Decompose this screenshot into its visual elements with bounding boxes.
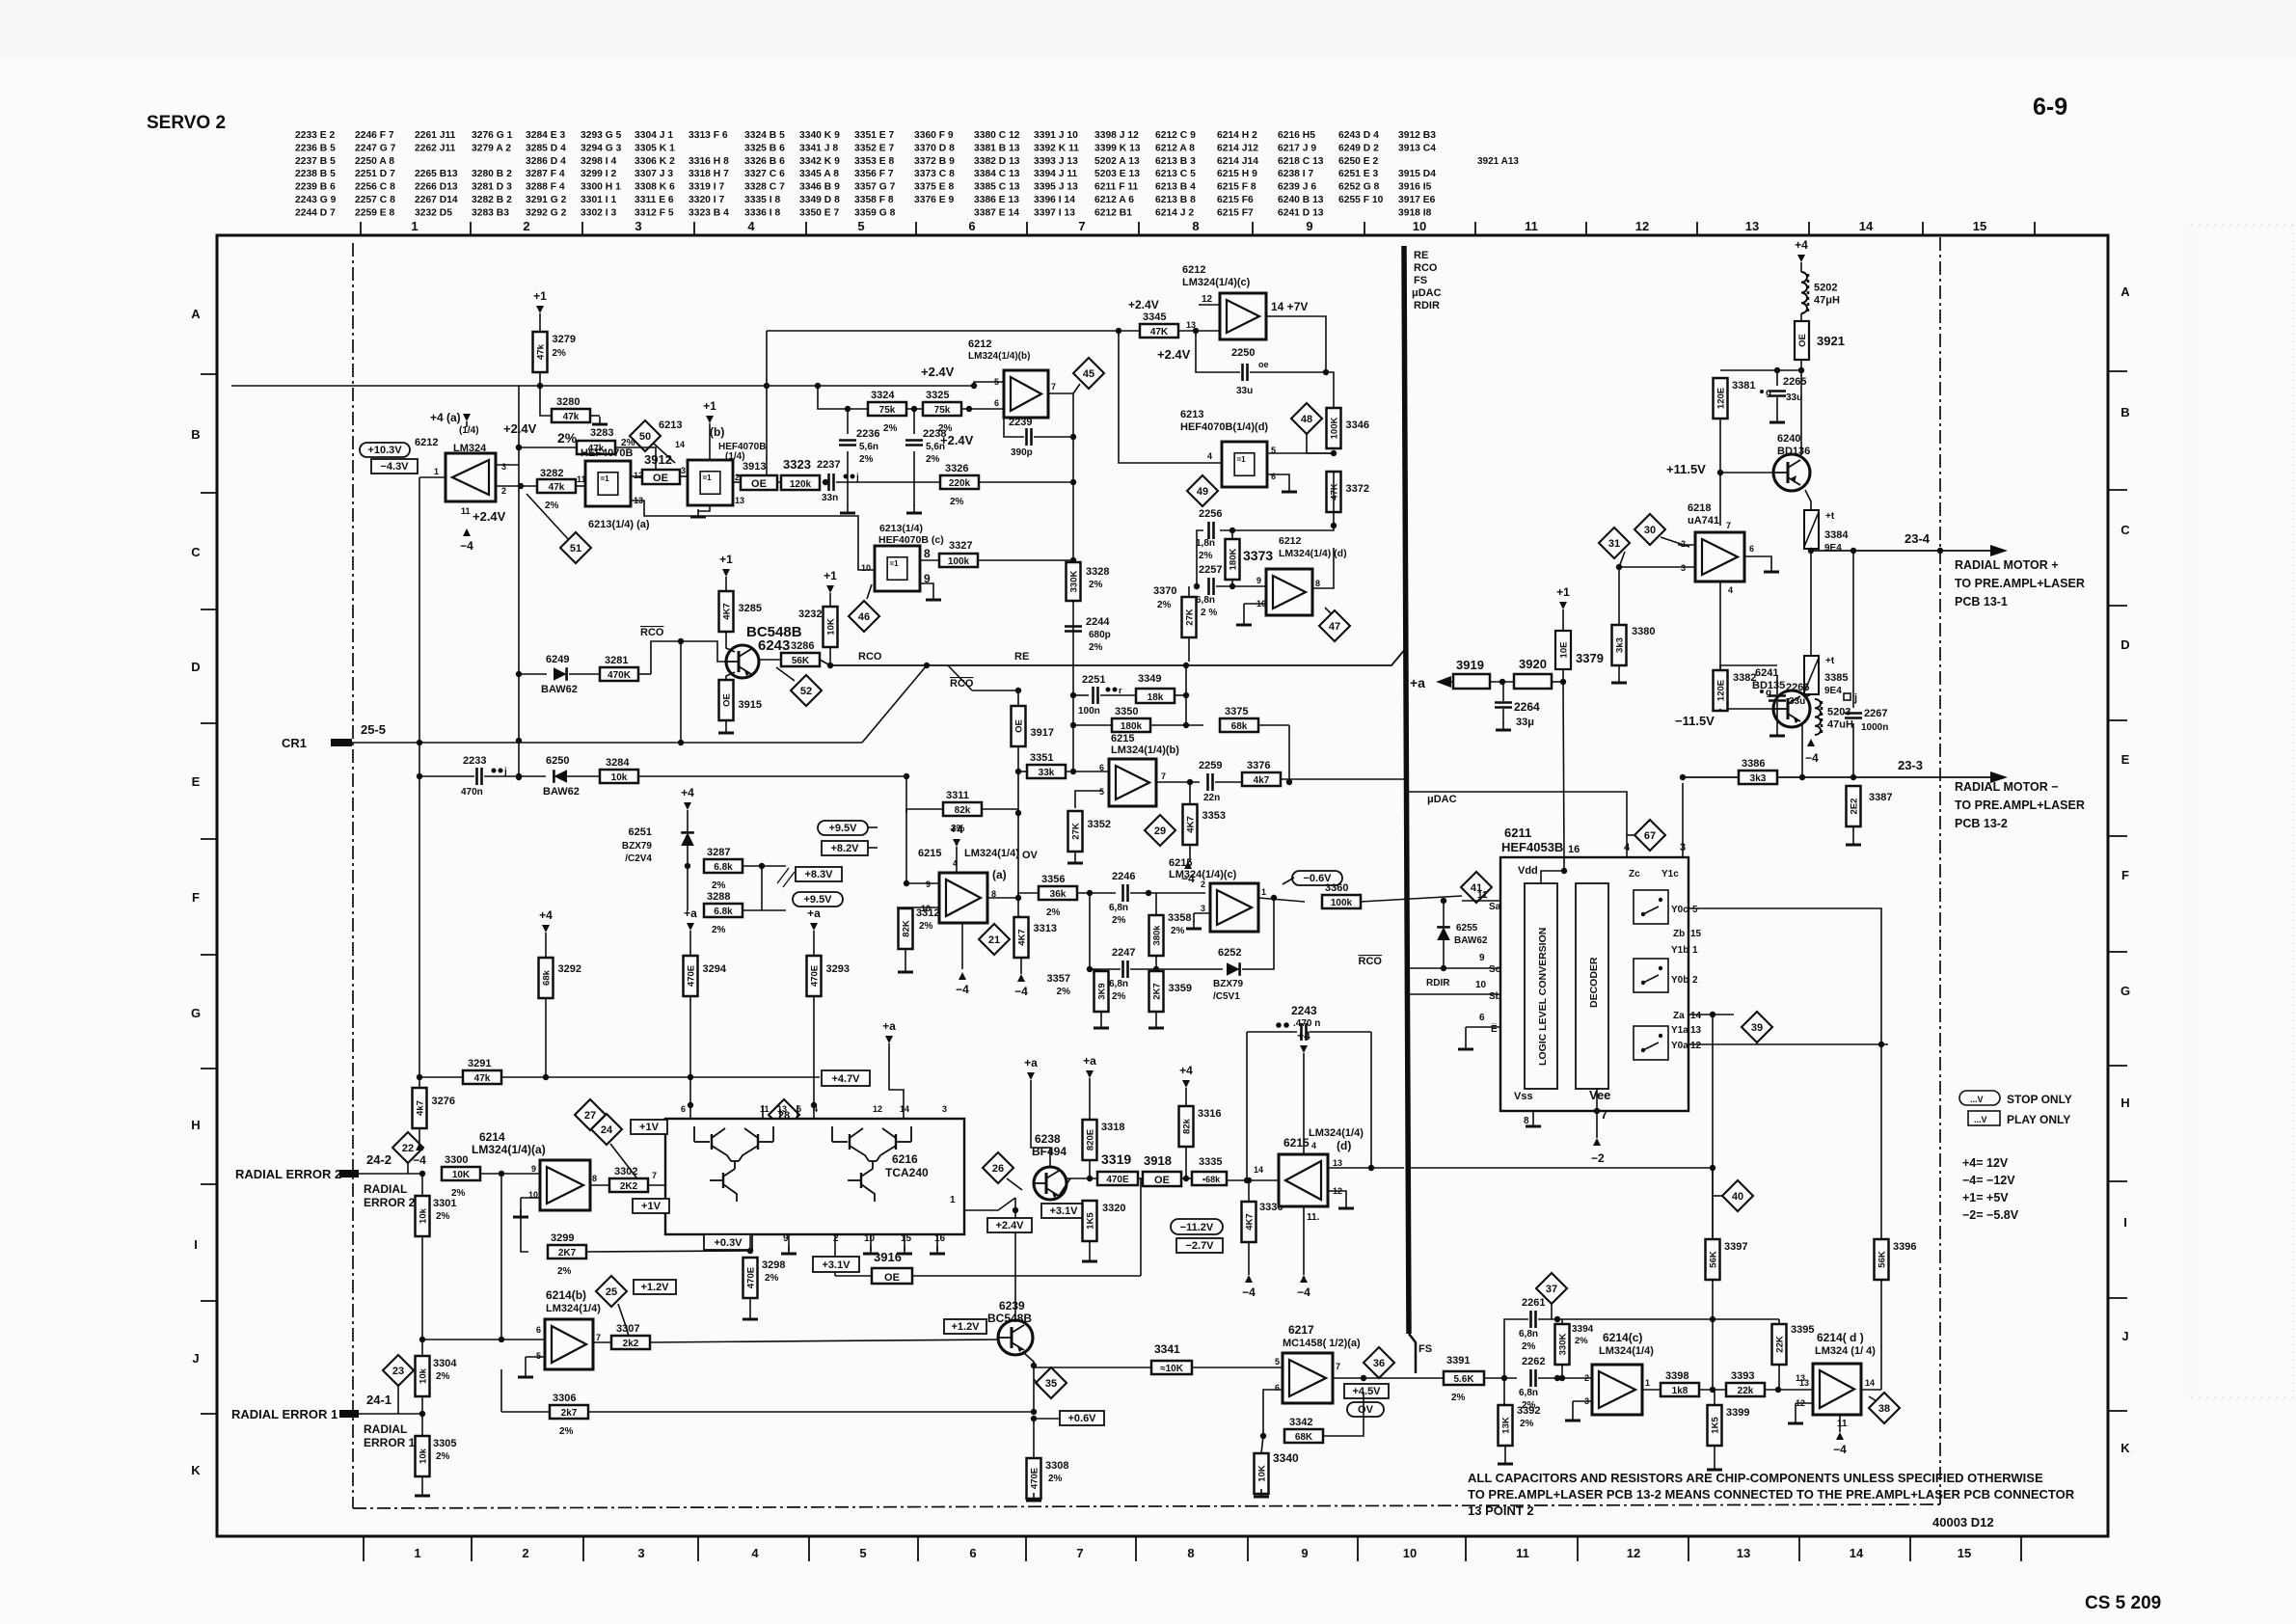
op-amp 6215(b) LM324: [1109, 759, 1156, 806]
svg-text:OE: OE: [884, 1272, 900, 1284]
svg-text:3300: 3300: [445, 1154, 468, 1166]
svg-text:10k: 10k: [419, 1367, 429, 1384]
ground: [1618, 675, 1620, 683]
wire: [1642, 1389, 1662, 1391]
wire: [906, 809, 943, 813]
test point 28: [769, 1099, 799, 1130]
svg-text:−4: −4: [1242, 1286, 1256, 1299]
svg-text:3292 G 2: 3292 G 2: [526, 207, 567, 218]
junction: [1710, 1316, 1715, 1322]
wire Za vertical: [1712, 1015, 1714, 1319]
test point 30: [1634, 514, 1665, 545]
wire pin: [788, 1234, 790, 1251]
resistor 3372: [1327, 472, 1341, 512]
wire: [1484, 1377, 1517, 1379]
svg-text:33u: 33u: [1786, 392, 1802, 403]
test point 21: [979, 924, 1010, 955]
svg-text:14: 14: [675, 440, 685, 449]
svg-text:+4 (a): +4 (a): [430, 411, 461, 424]
svg-text:3311: 3311: [946, 790, 969, 801]
svg-text:+1.2V: +1.2V: [951, 1321, 980, 1333]
svg-text:3301 I 1: 3301 I 1: [581, 195, 616, 205]
junction: [1015, 688, 1021, 693]
resistor 3323: [781, 475, 820, 490]
svg-text:3313: 3313: [1034, 923, 1057, 934]
svg-text:7: 7: [1076, 1546, 1083, 1560]
svg-text:14: 14: [1850, 1546, 1864, 1560]
wire: [709, 429, 711, 460]
resistor 3349: [1136, 689, 1175, 703]
resistor 3301: [416, 1196, 430, 1236]
wire Sa: [1361, 896, 1462, 902]
svg-text:RCO: RCO: [1359, 956, 1383, 967]
wire: [1852, 723, 1854, 777]
svg-text:3286: 3286: [791, 640, 814, 652]
svg-text:37: 37: [1546, 1284, 1557, 1295]
svg-text:4: 4: [1207, 451, 1212, 461]
wire: [545, 998, 547, 1077]
svg-text:−4: −4: [460, 539, 473, 553]
svg-text:7: 7: [652, 1171, 657, 1180]
test point 25: [596, 1276, 627, 1307]
svg-text:13: 13: [1690, 1025, 1702, 1036]
ground: [1465, 1042, 1467, 1049]
svg-text:−4: −4: [1014, 985, 1028, 998]
junction: [1331, 450, 1337, 456]
junction: [1070, 692, 1076, 698]
svg-text:3345 A 8: 3345 A 8: [799, 169, 839, 179]
svg-text:G: G: [2120, 984, 2130, 998]
svg-text:F: F: [192, 890, 200, 905]
junction: [911, 406, 917, 412]
wire: [1720, 472, 1773, 474]
wire: [419, 775, 474, 777]
test point 46: [849, 601, 879, 632]
wire Y0a: [1688, 1043, 1888, 1045]
svg-text:470K: 470K: [608, 670, 632, 681]
svg-text:3293: 3293: [826, 963, 850, 975]
svg-text:2k7: 2k7: [561, 1408, 578, 1419]
wire: [526, 1356, 545, 1358]
wire: [1795, 1403, 1796, 1416]
svg-text:16: 16: [934, 1233, 946, 1244]
svg-text:−2= −5.8V: −2= −5.8V: [1962, 1208, 2019, 1222]
wire: [1073, 694, 1089, 696]
wire pin1: [964, 1198, 1015, 1210]
bus RE/RCO/FS/uDAC/RDIR: [1404, 246, 1409, 1334]
svg-text:3288: 3288: [707, 891, 730, 903]
svg-text:3385 C 13: 3385 C 13: [974, 182, 1020, 193]
wire: [1090, 893, 1121, 969]
wire: [638, 775, 906, 777]
svg-text:3386: 3386: [1742, 758, 1765, 770]
svg-text:10K: 10K: [1257, 1465, 1268, 1482]
wire: [1261, 1436, 1263, 1453]
svg-text:14: 14: [1254, 1165, 1263, 1175]
svg-text:6212: 6212: [1279, 535, 1302, 547]
svg-text:2%: 2%: [1199, 551, 1213, 561]
junction: [1087, 966, 1093, 972]
svg-text:3915: 3915: [739, 699, 762, 711]
svg-text:3k3: 3k3: [1750, 773, 1767, 784]
wire 67 stem: [1627, 834, 1634, 836]
svg-text:3282 B 2: 3282 B 2: [472, 195, 512, 205]
resistor 3351: [1027, 765, 1066, 778]
svg-text:2261: 2261: [1522, 1297, 1545, 1309]
svg-text:RDIR: RDIR: [1426, 978, 1450, 988]
junction: [1070, 557, 1076, 563]
svg-text:38: 38: [1878, 1403, 1890, 1415]
callout +3.1V: [813, 1257, 859, 1272]
wire: [1033, 1419, 1035, 1458]
svg-text:4K7: 4K7: [1017, 929, 1028, 945]
capacitor 2233: [475, 768, 478, 785]
junction: [1710, 1387, 1715, 1393]
svg-text:3912 B3: 3912 B3: [1398, 130, 1436, 141]
wire: [847, 409, 849, 434]
svg-text:I: I: [2123, 1215, 2127, 1230]
svg-text:27: 27: [584, 1110, 596, 1122]
supply: [1807, 739, 1815, 746]
ground: [1770, 564, 1772, 572]
wire: [1185, 1147, 1187, 1178]
svg-text:2%: 2%: [557, 430, 578, 446]
wire 39 stem: [1756, 1042, 1758, 1044]
svg-text:BAW62: BAW62: [1454, 935, 1488, 946]
svg-text:2243: 2243: [1291, 1004, 1317, 1017]
ground: [904, 1246, 905, 1254]
wire Y0c route: [1688, 908, 1881, 1390]
wire: [1451, 681, 1453, 683]
svg-text:3299 I 2: 3299 I 2: [581, 169, 616, 179]
svg-text:LM324(1/4)(a): LM324(1/4)(a): [472, 1143, 546, 1156]
svg-text:3342: 3342: [1289, 1417, 1312, 1428]
wire: [419, 1076, 463, 1078]
capacitor 2250: [1241, 364, 1244, 381]
svg-text:9: 9: [1301, 1546, 1308, 1560]
wire: [1719, 582, 1721, 709]
test point 24: [591, 1114, 622, 1145]
wire: [1231, 580, 1233, 586]
svg-text:52: 52: [800, 686, 812, 697]
svg-text:+1.2V: +1.2V: [640, 1282, 669, 1293]
resistor 3913: [741, 475, 777, 490]
svg-text:3: 3: [681, 466, 686, 475]
wire: [1776, 397, 1778, 415]
svg-text:oe: oe: [1258, 360, 1269, 369]
wire Sc: [1409, 967, 1500, 969]
wire pin13 row: [1328, 1167, 1404, 1169]
svg-text:6: 6: [1271, 472, 1276, 481]
junction: [516, 773, 522, 779]
wire: [1326, 372, 1334, 408]
svg-text:6212: 6212: [415, 437, 438, 448]
svg-text:+9.5V: +9.5V: [803, 894, 832, 906]
svg-text:31: 31: [1608, 538, 1620, 550]
svg-text:47uH: 47uH: [1827, 719, 1853, 731]
wire: [500, 1174, 502, 1340]
wire: [1283, 878, 1294, 884]
connector 23-4: [1990, 545, 2008, 556]
svg-text:TO PRE.AMPL+LASER PCB 13-2 ME: TO PRE.AMPL+LASER PCB 13-2 MEANS CONNECT…: [1468, 1487, 2075, 1502]
TCA240 internal pair: [693, 1126, 695, 1142]
wire: [836, 481, 940, 483]
wire: [961, 408, 1004, 410]
wire 23-4: [1811, 550, 1990, 552]
svg-text:Vdd: Vdd: [1518, 865, 1538, 877]
svg-text:1: 1: [950, 1195, 956, 1205]
svg-text:2251 D 7: 2251 D 7: [355, 169, 395, 179]
svg-text:2250: 2250: [1231, 347, 1255, 359]
svg-text:▪68k: ▪68k: [1202, 1175, 1221, 1184]
svg-text:HEF4070B (c): HEF4070B (c): [878, 534, 944, 546]
ground: [1502, 722, 1504, 730]
wire: [1618, 665, 1620, 675]
wire: [1066, 771, 1109, 772]
svg-text:100k: 100k: [948, 556, 970, 567]
callout −0.6V: [1292, 871, 1342, 885]
svg-text:33k: 33k: [1039, 768, 1055, 778]
junction: [1501, 1375, 1507, 1381]
svg-text:LM324 (1/ 4): LM324 (1/ 4): [1815, 1345, 1876, 1357]
wire: [687, 816, 689, 831]
svg-text:PCB 13-1: PCB 13-1: [1955, 595, 2008, 609]
junction: [419, 1171, 425, 1177]
wire: [829, 647, 831, 665]
wire: [1243, 604, 1245, 617]
wire: [978, 559, 1073, 561]
resistor 3298: [743, 1258, 758, 1298]
svg-text:J: J: [192, 1351, 199, 1366]
wire: [835, 1275, 872, 1277]
svg-text:10E: 10E: [1559, 642, 1570, 659]
svg-text:5202: 5202: [1814, 283, 1837, 294]
junction: [516, 671, 522, 677]
svg-text:2%: 2%: [1522, 1341, 1536, 1352]
wire: [1404, 1377, 1444, 1379]
wire to bus: [1281, 778, 1404, 780]
svg-text:3387: 3387: [1869, 792, 1892, 803]
svg-text:+1: +1: [824, 569, 837, 582]
svg-text:3399 K 13: 3399 K 13: [1094, 143, 1141, 153]
wire: [525, 1357, 527, 1369]
callout −11.2V: [1171, 1219, 1223, 1234]
wire: [1712, 1319, 1714, 1390]
svg-text:+a: +a: [1410, 675, 1425, 690]
wire: [539, 319, 541, 332]
svg-text:2%: 2%: [712, 925, 726, 935]
gate 6213 HEF4070B (b): [688, 460, 733, 505]
svg-text:6214(c): 6214(c): [1603, 1331, 1642, 1344]
svg-text:TO PRE.AMPL+LASER: TO PRE.AMPL+LASER: [1955, 577, 2085, 590]
svg-text:2256 C 8: 2256 C 8: [355, 182, 395, 193]
resistor 3299: [548, 1245, 586, 1259]
junction: [499, 1171, 504, 1177]
svg-text:5: 5: [1692, 905, 1698, 915]
junction: [1070, 769, 1076, 774]
svg-text:470E: 470E: [746, 1267, 757, 1288]
wire: [1138, 1177, 1143, 1179]
svg-text:6238 I 7: 6238 I 7: [1278, 169, 1313, 179]
supply −4: [1245, 1275, 1253, 1283]
wire: [631, 475, 642, 477]
svg-text:6215 F7: 6215 F7: [1217, 207, 1254, 218]
callout +1.2V: [944, 1319, 986, 1334]
wire 46 stem: [867, 584, 872, 599]
svg-text:3335: 3335: [1199, 1156, 1222, 1168]
wire: [1572, 1401, 1574, 1413]
svg-text:2236: 2236: [856, 428, 879, 440]
wire: [834, 1272, 836, 1276]
svg-text:2264: 2264: [1514, 700, 1540, 714]
svg-text:13: 13: [735, 496, 744, 505]
svg-text:RDIR: RDIR: [1414, 300, 1440, 311]
junction: [1559, 1375, 1565, 1381]
wire vee: [1596, 1089, 1598, 1138]
resistor 3382: [1714, 670, 1728, 711]
svg-text:9: 9: [1306, 219, 1312, 233]
junction: [1070, 722, 1076, 728]
wire bus to FS: [1409, 1334, 1416, 1373]
svg-text:1000n: 1000n: [1861, 722, 1888, 733]
wire: [1719, 709, 1721, 711]
svg-text:10: 10: [864, 1233, 876, 1244]
svg-text:2262 J11: 2262 J11: [415, 143, 456, 153]
svg-text:6,8n: 6,8n: [1519, 1329, 1538, 1340]
svg-text:2233 E 2: 2233 E 2: [295, 130, 335, 141]
ground: [520, 1209, 522, 1217]
resistor 3353: [1183, 804, 1198, 845]
svg-text:15: 15: [1690, 929, 1702, 939]
svg-text:1: 1: [411, 219, 418, 233]
supply −4: [1300, 1275, 1308, 1283]
svg-text:+a: +a: [807, 907, 821, 920]
svg-text:10K: 10K: [826, 618, 837, 636]
svg-text:3921 A13: 3921 A13: [1477, 156, 1519, 167]
wire: [419, 1128, 420, 1143]
wire: [1561, 1319, 1563, 1324]
svg-text:/C5V1: /C5V1: [1213, 991, 1240, 1002]
svg-text:HEF4070B(1/4)(d): HEF4070B(1/4)(d): [1180, 421, 1268, 433]
test point 36: [1364, 1347, 1394, 1378]
svg-text:+1: +1: [703, 399, 716, 413]
svg-text:RE: RE: [1014, 651, 1029, 663]
svg-text:3385: 3385: [1824, 672, 1848, 684]
resistor 3318: [1083, 1120, 1097, 1160]
inductor 5202: [1801, 272, 1807, 313]
svg-text:RCO: RCO: [858, 651, 882, 663]
svg-text:120E: 120E: [1716, 388, 1727, 409]
svg-text:22K: 22K: [1775, 1336, 1786, 1353]
wire: [1801, 725, 1803, 777]
svg-text:(a): (a): [992, 868, 1007, 881]
test point 22: [392, 1132, 423, 1163]
svg-text:39: 39: [1751, 1022, 1763, 1034]
svg-text:3308 K 6: 3308 K 6: [635, 182, 675, 193]
svg-text:+2.4V: +2.4V: [940, 433, 974, 447]
svg-text:3349 D 8: 3349 D 8: [799, 195, 840, 205]
wire emitter: [1024, 1353, 1034, 1412]
svg-text:3342 K 9: 3342 K 9: [799, 156, 840, 167]
svg-text:68K: 68K: [1295, 1432, 1313, 1443]
svg-text:K: K: [191, 1463, 201, 1477]
wire: [1194, 912, 1210, 914]
resistor 3302: [609, 1178, 648, 1192]
op-amp 6215(d) LM324: [1279, 1154, 1328, 1206]
svg-text:+2.4V: +2.4V: [921, 365, 955, 379]
svg-text:3305: 3305: [433, 1438, 456, 1449]
wire to 6239 base: [650, 1340, 998, 1342]
wire Vdd riser: [1563, 682, 1564, 857]
IC 6216 TCA240: [665, 1119, 964, 1234]
svg-text:Y1c: Y1c: [1661, 869, 1679, 880]
svg-text:33u: 33u: [1236, 386, 1253, 396]
svg-text:Vee: Vee: [1589, 1088, 1610, 1102]
resistor 3316: [1179, 1106, 1194, 1147]
resistor 3358: [1149, 915, 1164, 956]
svg-text:4: 4: [1728, 585, 1733, 595]
svg-text:15: 15: [901, 1233, 912, 1244]
op-amp 6217 MC1458: [1283, 1353, 1333, 1403]
svg-text:8: 8: [1315, 579, 1320, 588]
wire: [1242, 898, 1274, 969]
svg-text:3340: 3340: [1273, 1451, 1299, 1465]
wire: [906, 408, 923, 410]
resistor 3328: [1067, 562, 1081, 601]
wire pin11: [762, 1105, 764, 1119]
svg-text:BZX79: BZX79: [1213, 979, 1244, 989]
wire Za: [1688, 1014, 1713, 1015]
svg-text:A: A: [191, 307, 201, 321]
resistor 3336: [1242, 1202, 1256, 1242]
ground: [1776, 728, 1778, 736]
svg-text:3304: 3304: [433, 1358, 457, 1369]
ground: [1714, 1462, 1715, 1470]
svg-text:5: 5: [1275, 1357, 1280, 1367]
supply −4: [1836, 1432, 1844, 1440]
ground: [1155, 1020, 1157, 1028]
svg-text:3353 E 8: 3353 E 8: [854, 156, 894, 167]
svg-text:6212 A 6: 6212 A 6: [1094, 195, 1134, 205]
svg-text:3360: 3360: [1325, 882, 1348, 894]
svg-text:5.6K: 5.6K: [1453, 1374, 1474, 1385]
svg-text:45: 45: [1083, 368, 1094, 380]
svg-text:C: C: [2120, 523, 2130, 537]
svg-text:+a: +a: [684, 907, 697, 920]
svg-text:2250 A 8: 2250 A 8: [355, 156, 394, 167]
svg-text:2 %: 2 %: [1201, 608, 1217, 618]
ground: [525, 1369, 527, 1377]
wire: [1014, 1198, 1016, 1320]
svg-text:2266: 2266: [1786, 682, 1809, 693]
svg-text:LM324(1/4)(b): LM324(1/4)(b): [968, 351, 1030, 362]
svg-text:3299: 3299: [551, 1232, 574, 1244]
wire RCO-bar to base: [651, 641, 726, 674]
svg-text:2%: 2%: [559, 1426, 574, 1437]
svg-text:100K: 100K: [1330, 418, 1340, 440]
op-amp 6212(c) LM324: [1220, 293, 1266, 339]
wire: [1089, 1241, 1091, 1254]
wire: [1155, 1012, 1157, 1020]
svg-text:6249: 6249: [546, 654, 569, 665]
wire +2.4V rail: [231, 385, 974, 387]
svg-text:7: 7: [1726, 521, 1731, 530]
ground: [1100, 1020, 1102, 1028]
svg-text:75k: 75k: [879, 405, 896, 416]
svg-text:12: 12: [1690, 1041, 1702, 1051]
wire: [359, 1173, 424, 1175]
wire: [501, 1411, 550, 1413]
